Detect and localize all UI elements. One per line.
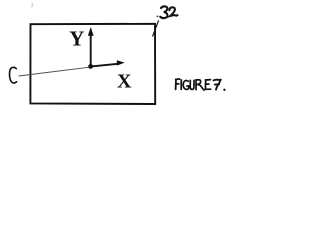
caption FIGURE 7. digit 7 bbox=[214, 80, 221, 90]
X axis arrowhead bbox=[117, 60, 125, 65]
period before 32 bbox=[157, 16, 159, 18]
Y axis arrowhead bbox=[88, 27, 94, 36]
caption FIGURE 7. letter F bbox=[176, 79, 180, 89]
caption FIGURE 7. letter R bbox=[196, 80, 204, 90]
svg-text:X: X bbox=[117, 71, 132, 93]
caption FIGURE 7. letter G bbox=[183, 80, 189, 89]
leader line from 32 to rectangle corner bbox=[153, 20, 159, 36]
origin dot (point C) bbox=[88, 64, 93, 69]
caption FIGURE 7. letter I bbox=[180, 80, 182, 89]
label 32 digit 3 (handwritten) bbox=[160, 6, 167, 18]
rectangle 32 (touch surface outline) bbox=[30, 24, 155, 104]
caption FIGURE 7. letter E bbox=[205, 80, 210, 90]
Y axis line bbox=[90, 35, 92, 67]
caption FIGURE 7. period bbox=[223, 89, 225, 91]
label C (handwritten) bbox=[9, 67, 16, 83]
caption FIGURE 7. letter U bbox=[190, 80, 194, 89]
faint page artifact top-left bbox=[32, 3, 33, 8]
X axis line bbox=[90, 64, 118, 67]
label 32 digit 2 (handwritten) bbox=[169, 7, 177, 16]
svg-text:Y: Y bbox=[69, 27, 84, 51]
leader line from C to origin bbox=[19, 67, 89, 76]
